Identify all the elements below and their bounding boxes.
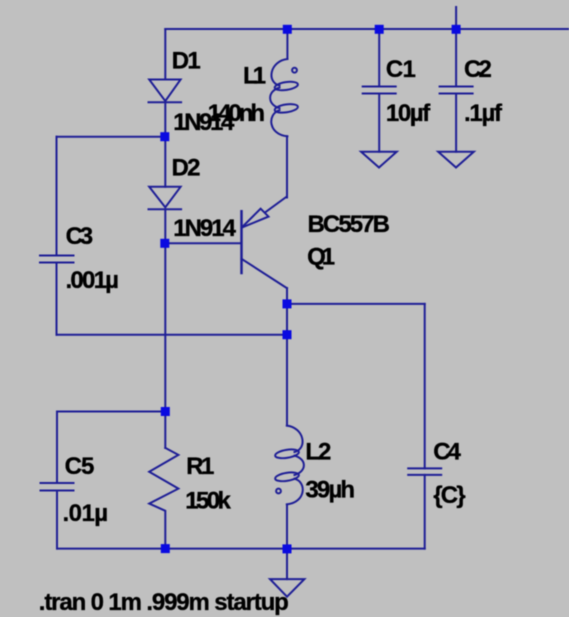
svg-text:150k: 150k xyxy=(185,487,231,514)
svg-text:C3: C3 xyxy=(66,223,94,250)
svg-text:10µf: 10µf xyxy=(386,100,431,127)
svg-text:C4: C4 xyxy=(433,438,461,465)
svg-text:{C}: {C} xyxy=(433,482,466,509)
svg-text:.1µf: .1µf xyxy=(464,100,503,127)
svg-text:C1: C1 xyxy=(386,56,416,83)
svg-text:.tran 0 1m .999m startup: .tran 0 1m .999m startup xyxy=(39,589,289,616)
svg-text:1N914: 1N914 xyxy=(173,215,236,242)
svg-text:Q1: Q1 xyxy=(307,243,335,270)
svg-text:L1: L1 xyxy=(243,62,266,89)
svg-text:39µh: 39µh xyxy=(305,477,355,504)
svg-text:C5: C5 xyxy=(65,453,95,480)
svg-text:D1: D1 xyxy=(172,48,201,75)
svg-text:.01µ: .01µ xyxy=(63,500,109,527)
svg-text:.001µ: .001µ xyxy=(66,267,120,294)
svg-text:R1: R1 xyxy=(186,453,214,480)
svg-text:D2: D2 xyxy=(172,154,201,181)
svg-text:L2: L2 xyxy=(305,438,331,465)
svg-text:1N914: 1N914 xyxy=(173,109,235,136)
svg-text:C2: C2 xyxy=(464,56,492,83)
svg-text:BC557B: BC557B xyxy=(308,211,391,238)
